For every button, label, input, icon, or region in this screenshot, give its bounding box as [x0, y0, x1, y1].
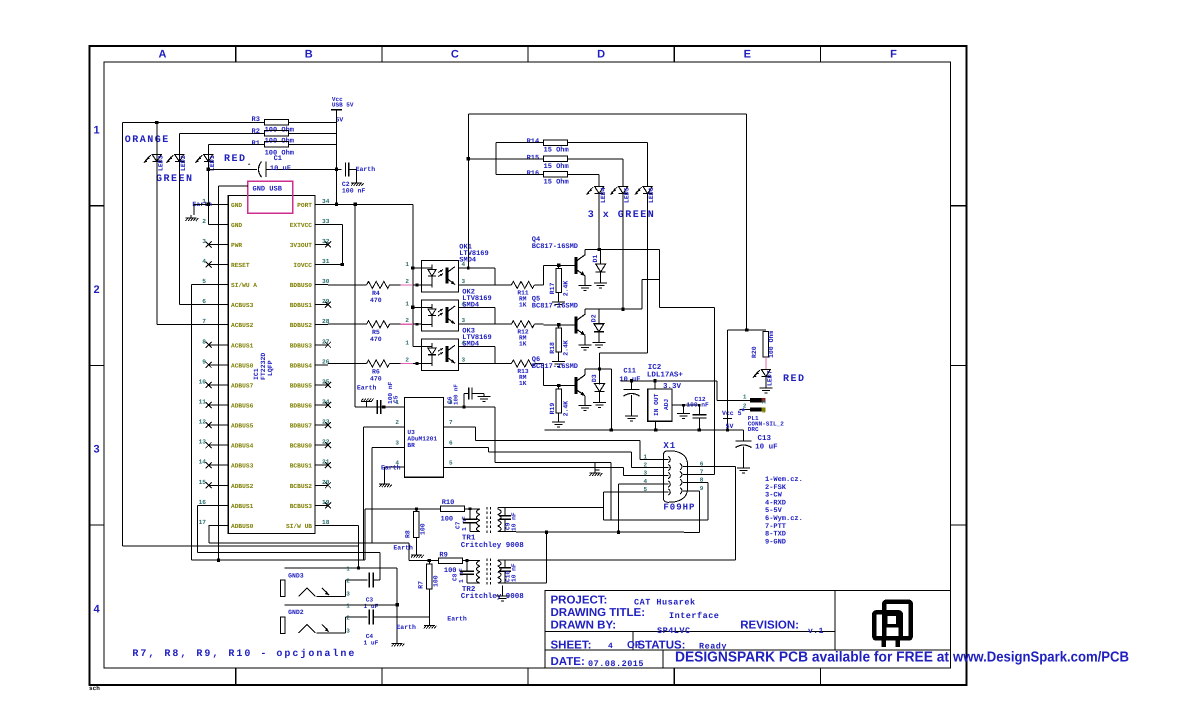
- svg-text:LED7: LED7: [767, 370, 774, 386]
- svg-text:33: 33: [322, 218, 330, 225]
- diode D2: [598, 309, 600, 324]
- svg-text:BR: BR: [407, 442, 415, 449]
- svg-text:4: 4: [608, 642, 613, 651]
- svg-text:2.4K: 2.4K: [563, 281, 570, 297]
- svg-text:9: 9: [700, 485, 704, 492]
- svg-text:RESET: RESET: [231, 262, 250, 269]
- X1 pin 3: [650, 475, 669, 477]
- IC1 left pin 8 ACBUS1: [209, 344, 229, 346]
- svg-text:ADBUS5: ADBUS5: [231, 423, 254, 430]
- svg-text:DRAWING TITLE:: DRAWING TITLE:: [551, 607, 646, 619]
- svg-text:ADBUS6: ADBUS6: [231, 403, 254, 410]
- wire to X1 pin2: [631, 452, 633, 468]
- svg-text:DRC: DRC: [748, 426, 759, 433]
- row dividers left: [90, 205, 105, 207]
- svg-text:6-Wym.cz.: 6-Wym.cz.: [765, 515, 803, 523]
- IC1 right pin 32 3V3OUT: [315, 243, 328, 245]
- 3.3V rail: [621, 380, 718, 382]
- Q4 collector wire: [584, 250, 586, 255]
- svg-text:GND: GND: [231, 202, 242, 209]
- svg-text:ADBUS1: ADBUS1: [231, 503, 254, 510]
- svg-text:LQFP: LQFP: [267, 360, 274, 376]
- 5V rail right vertical: [746, 114, 748, 330]
- svg-text:R18: R18: [549, 342, 556, 354]
- IC1 left pin 3 PWR: [209, 243, 229, 245]
- svg-text:2.4K: 2.4K: [563, 340, 570, 356]
- IC1 left pin 1 GND: [209, 203, 229, 205]
- svg-text:4: 4: [93, 603, 100, 615]
- X1 pin 6: [683, 466, 688, 468]
- LED5 green: [622, 159, 624, 187]
- LED1 (red): [207, 144, 209, 224]
- PL1 pin2 wire: [740, 409, 751, 411]
- svg-text:3-CW: 3-CW: [765, 492, 783, 500]
- IC2 bottom pin wire: [655, 421, 657, 430]
- svg-text:3: 3: [346, 591, 350, 598]
- svg-text:2: 2: [93, 284, 99, 296]
- svg-text:4: 4: [462, 340, 466, 347]
- svg-text:GND USB: GND USB: [253, 186, 283, 194]
- 5V top rail: [468, 113, 746, 115]
- wire to X1 pin5: [603, 492, 605, 507]
- PL1 pin1 pad: [750, 398, 761, 402]
- svg-text:3V3OUT: 3V3OUT: [290, 242, 313, 249]
- svg-text:5: 5: [202, 278, 206, 285]
- U3 pin8 net down: [494, 407, 496, 463]
- svg-text:LED1: LED1: [209, 155, 216, 171]
- svg-text:D1: D1: [592, 255, 599, 263]
- Q5 collector net wire: [585, 308, 642, 310]
- resistor R12 1K: [511, 321, 534, 328]
- capacitor C5 100nF: [376, 400, 378, 414]
- svg-text:7: 7: [449, 419, 453, 426]
- svg-text:R7, R8, R9, R10 - opcjonalne: R7, R8, R9, R10 - opcjonalne: [132, 648, 356, 660]
- svg-text:LED2: LED2: [180, 155, 187, 171]
- X1 pin 1: [650, 459, 669, 461]
- svg-text:2-FSK: 2-FSK: [765, 484, 787, 492]
- svg-text:SP4LVC: SP4LVC: [657, 626, 691, 636]
- transformer TR1 Critchley 9008: [477, 509, 480, 515]
- IC2 adj wire: [672, 404, 699, 406]
- svg-text:B: B: [762, 408, 766, 415]
- IC1 right pin 20 BCBUS2: [315, 484, 328, 486]
- svg-text:ACBUS0: ACBUS0: [231, 362, 254, 369]
- IC1 left pin 6 ACBUS3: [209, 304, 229, 306]
- svg-text:PROJECT:: PROJECT:: [551, 595, 608, 607]
- LED7 pink wire: [765, 357, 767, 370]
- LED6 jog to D3: [600, 352, 648, 354]
- IC1 right pin 21 BCBUS1: [315, 464, 328, 466]
- svg-text:6: 6: [202, 298, 206, 305]
- X1 pin8 wire net: [688, 481, 708, 483]
- svg-text:07.08.2015: 07.08.2015: [588, 659, 644, 669]
- sheet inner border: [104, 62, 950, 668]
- svg-text:ADBUS7: ADBUS7: [231, 382, 254, 389]
- svg-text:1: 1: [395, 399, 399, 406]
- svg-text:D2: D2: [590, 314, 597, 322]
- IC1 left pin 14 ADBUS3: [209, 464, 229, 466]
- svg-text:v.1: v.1: [808, 627, 824, 636]
- column dividers bottom: [235, 668, 237, 685]
- rail left vertical: [467, 114, 469, 268]
- IC1 left pin 4 RESET: [209, 264, 229, 266]
- X1 DB9 body: [663, 451, 687, 503]
- svg-text:1 uF: 1 uF: [364, 603, 379, 610]
- pin1 ground wire: [194, 203, 209, 205]
- title block divider date: [662, 650, 664, 668]
- svg-text:BDBUS4: BDBUS4: [290, 362, 313, 369]
- opto anode bus vertical: [412, 204, 414, 346]
- X1 pin 9: [683, 490, 688, 492]
- optocoupler OK1 LTV8169: [422, 261, 459, 292]
- svg-text:F: F: [890, 49, 897, 61]
- svg-text:ACBUS1: ACBUS1: [231, 342, 254, 349]
- svg-text:2: 2: [405, 357, 409, 364]
- IC1 left pin 13 ADBUS4: [209, 444, 229, 446]
- svg-text:16: 16: [199, 499, 207, 506]
- svg-text:RED: RED: [783, 374, 806, 385]
- svg-text:B: B: [305, 49, 313, 61]
- transistor Q6 BC817-16SMD: [575, 377, 578, 394]
- 5V lower rail: [545, 429, 744, 431]
- wire pin17 run: [208, 524, 210, 526]
- OK1 collector wire: [459, 267, 495, 269]
- svg-text:IC1: IC1: [253, 368, 260, 380]
- svg-text:2: 2: [346, 578, 350, 585]
- IC1 right pin 27 BDBUS3: [315, 344, 328, 346]
- X1 pin 7: [683, 474, 688, 476]
- svg-text:1: 1: [346, 566, 350, 573]
- Q5 collector wire: [584, 309, 586, 314]
- svg-text:Vcc 5: Vcc 5: [722, 410, 742, 417]
- svg-text:RED: RED: [224, 154, 247, 165]
- resistor R6 470: [328, 363, 367, 365]
- OK1 anode wire: [413, 267, 422, 269]
- TR2 secondary ground: [502, 593, 504, 596]
- svg-text:-: -: [247, 161, 251, 169]
- svg-text:R5: R5: [372, 329, 380, 336]
- svg-text:18: 18: [322, 519, 330, 526]
- svg-text:BCBUS0: BCBUS0: [290, 443, 313, 450]
- svg-text:LED3: LED3: [158, 155, 165, 171]
- OK3 cathode pink wire: [401, 363, 413, 365]
- svg-text:BCBUS1: BCBUS1: [290, 463, 313, 470]
- svg-text:100: 100: [433, 575, 440, 587]
- svg-text:3: 3: [93, 444, 99, 456]
- wire Vcc vertical: [335, 110, 337, 205]
- svg-text:LDL17AS+: LDL17AS+: [647, 371, 684, 380]
- svg-text:1: 1: [405, 340, 409, 347]
- svg-text:1: 1: [743, 394, 747, 401]
- resistor R19 2.4K: [558, 385, 560, 388]
- column dividers top: [235, 46, 237, 62]
- svg-text:1: 1: [93, 124, 99, 136]
- title block row line 2: [545, 649, 951, 651]
- wire pin5 run: [192, 284, 209, 286]
- X1 pin 8: [683, 481, 688, 483]
- svg-text:IN OUT: IN OUT: [653, 393, 660, 416]
- svg-text:BDBUS3: BDBUS3: [290, 342, 313, 349]
- svg-text:PWR: PWR: [231, 242, 242, 249]
- diode D3: [595, 384, 605, 392]
- svg-text:Earth: Earth: [381, 465, 401, 472]
- wire R3 long left run: [123, 121, 157, 123]
- svg-text:1K: 1K: [519, 301, 527, 308]
- svg-text:2.4K: 2.4K: [563, 401, 570, 417]
- svg-text:3: 3: [462, 278, 466, 285]
- IC1 left pin 12 ADBUS5: [209, 424, 229, 426]
- capacitor C4 1uF: [368, 609, 370, 624]
- R19 ground: [558, 413, 560, 419]
- svg-text:BC817-16SMD: BC817-16SMD: [532, 302, 578, 310]
- svg-text:3: 3: [395, 440, 399, 447]
- LED2 (green): [178, 133, 180, 304]
- X1 pin 5: [650, 491, 669, 493]
- resistor R20 100 Ohm: [763, 332, 769, 357]
- Q6 base wire: [534, 363, 543, 365]
- wire to X1 pin1: [639, 441, 641, 460]
- svg-text:ADBUS2: ADBUS2: [231, 483, 254, 490]
- svg-text:13: 13: [199, 439, 207, 446]
- title block logo cell divider: [834, 591, 836, 650]
- Vcc 5 wire: [727, 330, 729, 430]
- IC1 right pin 18 SI/W UB: [315, 524, 328, 526]
- LED3 (orange): [156, 122, 158, 324]
- svg-text:DRAWN BY:: DRAWN BY:: [551, 619, 617, 631]
- svg-text:BDBUS0: BDBUS0: [290, 282, 313, 289]
- svg-text:1K: 1K: [519, 341, 527, 348]
- transistor Q5 BC817-16SMD: [575, 316, 578, 333]
- OK3 emitter wire: [459, 363, 512, 365]
- svg-text:PORT: PORT: [297, 202, 312, 209]
- svg-text:100 Ohm: 100 Ohm: [768, 331, 775, 358]
- svg-text:Earth: Earth: [447, 615, 467, 622]
- svg-text:X1: X1: [663, 441, 676, 451]
- svg-text:sch: sch: [89, 685, 100, 692]
- jack connector GND2: [285, 604, 398, 606]
- Q6 collector wire: [584, 369, 586, 375]
- svg-text:100 nF: 100 nF: [342, 188, 366, 195]
- X1 pin 4: [650, 483, 669, 485]
- IC1 left pin 9 ACBUS0: [209, 364, 229, 366]
- R20 feed wire: [728, 329, 766, 331]
- svg-text:8-TXD: 8-TXD: [765, 531, 786, 539]
- LED4 green: [598, 174, 600, 186]
- svg-text:ORANGE: ORANGE: [125, 135, 170, 146]
- svg-text:15 Ohm: 15 Ohm: [544, 162, 569, 171]
- svg-text:10 nF: 10 nF: [511, 512, 518, 531]
- OK3 anode wire: [413, 346, 422, 348]
- IC1 right pin 29 BDBUS1: [315, 304, 328, 306]
- svg-text:C: C: [451, 49, 459, 61]
- svg-text:BDBUS7: BDBUS7: [290, 423, 313, 430]
- diode D1: [600, 250, 602, 265]
- svg-text:1 nF: 1 nF: [458, 568, 465, 583]
- svg-text:1 nF: 1 nF: [461, 516, 468, 531]
- capacitor C2 100nF: [336, 168, 341, 170]
- svg-text:30: 30: [322, 278, 330, 285]
- svg-text:4: 4: [462, 261, 466, 268]
- svg-text:100 nF: 100 nF: [686, 402, 709, 409]
- resistor R5 470: [328, 323, 367, 325]
- wire R2 to LED2: [179, 132, 264, 134]
- title block divider sheet/status: [632, 631, 634, 650]
- wire R1 to LED1: [208, 143, 264, 145]
- svg-text:10 uF: 10 uF: [755, 442, 778, 451]
- svg-text:DESIGNSPARK PCB available for: DESIGNSPARK PCB available for FREE at: [675, 650, 949, 666]
- wire R3 to LED3: [157, 121, 265, 123]
- wire LED1 to pin2: [207, 223, 209, 225]
- rail to R14-16 bus: [468, 158, 496, 160]
- svg-text:ADBUS0: ADBUS0: [231, 523, 254, 530]
- LED7 ground: [765, 377, 767, 386]
- R17 ground: [558, 293, 560, 299]
- svg-text:DATE:: DATE:: [551, 656, 585, 668]
- wire EXTVCC to IOVCC: [328, 223, 342, 225]
- svg-text:D3: D3: [591, 374, 598, 382]
- PTT wire to X1 pin7: [713, 308, 715, 475]
- svg-text:1-Wem.cz.: 1-Wem.cz.: [765, 476, 803, 484]
- svg-text:GND: GND: [231, 222, 242, 229]
- PL1 pin2 pad: [750, 407, 761, 411]
- svg-text:F09HP: F09HP: [663, 503, 695, 513]
- R18 ground: [558, 352, 560, 358]
- svg-text:17: 17: [199, 519, 207, 526]
- LED7 red: [761, 370, 770, 377]
- svg-text:R9: R9: [439, 552, 447, 560]
- capacitor C1: [208, 168, 257, 170]
- wire pin24 PORT net: [328, 203, 413, 205]
- OK1 emitter wire: [459, 284, 512, 286]
- svg-text:ADJ: ADJ: [663, 399, 670, 410]
- IC1 right pin 33 EXTVCC: [315, 223, 328, 225]
- optocoupler OK3 LTV8169: [422, 339, 459, 370]
- LED6 green: [647, 143, 649, 187]
- svg-text:LED5: LED5: [624, 187, 631, 203]
- svg-text:BDBUS2: BDBUS2: [290, 322, 313, 329]
- IC1 left pin 10 ADBUS7: [209, 384, 229, 386]
- resistor R13 1K: [511, 360, 534, 367]
- svg-text:C1: C1: [274, 155, 282, 163]
- IC1 right pin 25 BDBUS5: [315, 384, 328, 386]
- svg-text:www.DesignSpark.com/PCB: www.DesignSpark.com/PCB: [952, 650, 1129, 666]
- IC1 right pin 24 BDBUS6: [315, 404, 328, 406]
- svg-text:2: 2: [395, 419, 399, 426]
- svg-text:1: 1: [405, 300, 409, 307]
- svg-text:470: 470: [370, 336, 382, 343]
- svg-text:Critchley 9008: Critchley 9008: [461, 541, 525, 550]
- Vcc USB power bar: [331, 109, 342, 111]
- svg-text:R7: R7: [418, 581, 425, 589]
- wire pin16 run: [197, 504, 208, 506]
- U3 ADuM1201 body: [405, 397, 444, 477]
- resistor R7 100: [428, 561, 430, 565]
- PL1 pin1 wire from 3.3V: [716, 381, 718, 401]
- IC1 left pin 5 SI/WU A: [209, 284, 229, 286]
- svg-text:15: 15: [199, 479, 207, 486]
- svg-text:2: 2: [405, 278, 409, 285]
- svg-text:A: A: [762, 399, 766, 406]
- svg-text:R17: R17: [549, 282, 556, 294]
- svg-text:SI/W UB: SI/W UB: [286, 523, 312, 530]
- OK1 cathode pink wire: [401, 284, 413, 286]
- svg-text:LED4: LED4: [600, 187, 607, 203]
- IC1 left pin 7 ACBUS2: [209, 324, 229, 326]
- svg-text:4: 4: [462, 300, 466, 307]
- jack connector GND3: [285, 567, 398, 569]
- svg-text:100: 100: [441, 515, 454, 523]
- svg-text:R2: R2: [252, 128, 260, 136]
- svg-text:100: 100: [420, 523, 427, 535]
- svg-text:R20: R20: [751, 346, 758, 358]
- LED6 wire down: [647, 194, 649, 353]
- svg-text:BCBUS2: BCBUS2: [290, 483, 313, 490]
- svg-text:2: 2: [202, 218, 206, 225]
- resistor R8 100: [415, 509, 417, 511]
- svg-text:3 x GREEN: 3 x GREEN: [588, 210, 656, 221]
- IC1 right pin 22 BCBUS0: [315, 444, 328, 446]
- IC1 right pin 28 BDBUS2: [315, 324, 328, 326]
- svg-text:5V: 5V: [726, 423, 734, 430]
- svg-text:3.3V: 3.3V: [663, 382, 682, 391]
- svg-text:10 nF: 10 nF: [511, 563, 518, 582]
- svg-text:GND3: GND3: [288, 572, 304, 579]
- svg-text:3: 3: [346, 627, 350, 634]
- capacitor C6 100nF: [463, 393, 465, 407]
- Q4 emitter ground: [584, 276, 586, 283]
- svg-text:1: 1: [346, 602, 350, 609]
- svg-text:15 Ohm: 15 Ohm: [544, 146, 569, 155]
- svg-text:D: D: [597, 49, 605, 61]
- svg-text:Interface: Interface: [669, 611, 719, 621]
- svg-text:470: 470: [370, 297, 382, 304]
- svg-text:1K: 1K: [519, 380, 527, 387]
- Q4 collector net wire: [585, 249, 660, 251]
- LED4 wire down to Q4 collector node: [598, 194, 600, 250]
- svg-text:Earth: Earth: [393, 545, 413, 552]
- svg-text:BDBUS6: BDBUS6: [290, 403, 313, 410]
- sheet outer border: [90, 46, 967, 685]
- svg-text:1: 1: [405, 261, 409, 268]
- wire to X1 pin3: [622, 468, 624, 476]
- capacitor C7 1nF: [465, 508, 475, 510]
- svg-text:26: 26: [322, 358, 330, 365]
- svg-text:GND2: GND2: [288, 609, 304, 616]
- svg-text:BCBUS3: BCBUS3: [290, 503, 313, 510]
- TR1 feed wire: [365, 508, 441, 510]
- TR2 secondary wires: [497, 559, 499, 562]
- svg-text:10 uF: 10 uF: [270, 165, 291, 173]
- X1 pin 2: [650, 467, 669, 469]
- svg-text:C11: C11: [623, 367, 636, 375]
- svg-text:ACBUS2: ACBUS2: [231, 322, 254, 329]
- R8 earth ground: [415, 537, 417, 552]
- svg-text:10: 10: [199, 378, 207, 385]
- svg-text:11: 11: [199, 399, 207, 406]
- OK3 collector wire: [459, 346, 495, 348]
- svg-text:C13: C13: [758, 434, 772, 443]
- optocoupler OK2 LTV8169: [422, 300, 459, 331]
- svg-text:15 Ohm: 15 Ohm: [544, 177, 569, 186]
- capacitor C9 across TR1 secondary: [499, 515, 511, 517]
- R7 earth ground: [428, 589, 430, 622]
- svg-text:Earth: Earth: [396, 624, 416, 631]
- IC1 right pin 23 BDBUS7: [315, 424, 328, 426]
- Q6 emitter ground: [584, 396, 586, 403]
- title block row line 1: [545, 630, 835, 632]
- resistor R17 2.4K: [558, 265, 560, 268]
- X1 pin7 wire: [688, 474, 715, 476]
